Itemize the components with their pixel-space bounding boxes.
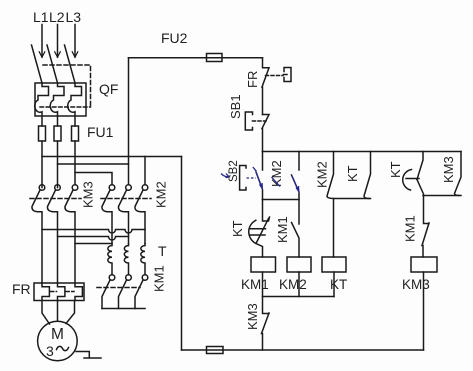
svg-text:FR: FR <box>12 281 31 297</box>
svg-text:L2: L2 <box>49 9 65 25</box>
svg-text:3: 3 <box>46 343 54 359</box>
svg-text:FU1: FU1 <box>87 124 114 140</box>
svg-text:KM1: KM1 <box>275 216 290 243</box>
svg-text:KM2: KM2 <box>279 277 307 292</box>
svg-text:QF: QF <box>99 81 118 97</box>
svg-text:SB2: SB2 <box>228 160 240 182</box>
svg-text:KM2: KM2 <box>154 181 169 208</box>
svg-text:T: T <box>158 243 167 259</box>
svg-text:KM1: KM1 <box>241 277 269 292</box>
svg-text:SB1: SB1 <box>228 94 243 119</box>
svg-text:KM2: KM2 <box>315 161 330 188</box>
svg-text:L1: L1 <box>33 9 49 25</box>
svg-text:KM3: KM3 <box>441 156 456 183</box>
svg-text:KM3: KM3 <box>81 181 96 208</box>
svg-text:KM1: KM1 <box>403 215 418 242</box>
svg-text:KT: KT <box>330 277 347 292</box>
svg-text:FR: FR <box>245 71 260 88</box>
svg-text:L3: L3 <box>66 9 82 25</box>
svg-text:KT: KT <box>230 220 245 237</box>
svg-text:KT: KT <box>345 165 360 182</box>
svg-text:KT: KT <box>388 161 403 178</box>
svg-text:KM1: KM1 <box>152 265 167 292</box>
svg-text:KM3: KM3 <box>402 277 430 292</box>
svg-text:FU2: FU2 <box>161 30 188 46</box>
svg-text:M: M <box>51 326 64 343</box>
svg-text:KM3: KM3 <box>245 303 260 330</box>
